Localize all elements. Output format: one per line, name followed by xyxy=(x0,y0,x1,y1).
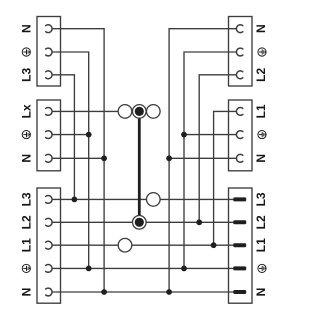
selector circle L1 bus (open) xyxy=(118,238,132,252)
pin BR-L1 xyxy=(233,243,246,247)
junction PE bus / PE riser right xyxy=(181,266,187,272)
svg-text:L1: L1 xyxy=(254,238,268,252)
wire N riser left (TL-N to ML-N to BL-N) xyxy=(52,29,104,292)
junction N bus / N riser right xyxy=(166,289,172,295)
terminal block TL (N PE L3 outlet) xyxy=(37,17,61,87)
svg-text:L1: L1 xyxy=(254,104,268,118)
label PE symbol (ML) xyxy=(22,131,30,139)
wire L3 bus (BL-L3 to BR-L3) xyxy=(52,198,235,200)
terminal block TR (N PE L2 outlet) xyxy=(229,17,253,87)
socket contact ML-PE xyxy=(46,131,52,139)
svg-text:L3: L3 xyxy=(19,192,33,206)
label PE symbol (TL) xyxy=(22,48,30,56)
svg-text:L2: L2 xyxy=(19,215,33,229)
svg-text:N: N xyxy=(19,24,33,33)
socket contact BL-L2 xyxy=(46,218,52,226)
wire PE bus (BL-PE to BR-PE) xyxy=(52,267,235,269)
wire L2 bus (BL-L2 to BR-L2) xyxy=(52,221,235,223)
wire L2 riser right (TR-L2 to L2 bus) xyxy=(199,75,236,223)
terminal block ML (Lx PE N outlet) xyxy=(37,100,61,171)
terminal block BR (L3 L2 L1 PE N feed-in pins) xyxy=(229,188,253,303)
svg-text:L3: L3 xyxy=(19,67,33,81)
svg-text:Lx: Lx xyxy=(19,104,33,118)
pin BR-L2 xyxy=(233,220,246,224)
wire ML-N to N riser xyxy=(52,157,104,159)
svg-text:N: N xyxy=(254,154,268,163)
pin BR-N xyxy=(233,290,246,294)
socket contact TR-N xyxy=(236,25,242,33)
svg-text:L2: L2 xyxy=(254,67,268,81)
junction L2 bus / L2 riser right xyxy=(196,219,202,225)
junction ML-PE / PE riser left xyxy=(86,132,92,138)
wire PE riser left (TL-PE to ML-PE to BL-PE) xyxy=(52,52,89,268)
socket contact BL-N xyxy=(46,288,52,296)
wire L3 riser left (TL-L3 to BL-L3) xyxy=(52,75,74,200)
label PE symbol (BL) xyxy=(22,264,30,272)
socket contact TL-L3 xyxy=(46,71,52,79)
svg-text:N: N xyxy=(19,288,33,297)
selector circle L3 bus (open) xyxy=(147,193,161,207)
wire N riser right (TR-N to MR-N to BR-N) xyxy=(169,29,236,292)
selector circle L2 bus (selected, filled) xyxy=(133,216,147,230)
junction L1 bus / L1 riser right xyxy=(211,242,217,248)
junction L3 bus / L3 riser left xyxy=(72,197,78,203)
junction ML-N / N riser left xyxy=(101,155,107,161)
wire Lx selector jumper (thick, selects L2) xyxy=(138,111,141,217)
svg-text:L2: L2 xyxy=(254,215,268,229)
socket contact ML-Lx xyxy=(46,108,52,116)
svg-text:L1: L1 xyxy=(19,238,33,252)
selector circle Lx position 3 (open) xyxy=(147,105,161,119)
socket contact TR-L2 xyxy=(236,71,242,79)
junction PE bus / PE riser left xyxy=(86,266,92,272)
wire MR-PE to PE riser xyxy=(184,134,236,136)
socket contact MR-N xyxy=(236,154,242,162)
junction MR-PE / PE riser right xyxy=(181,132,187,138)
selector circle Lx position 1 (open) xyxy=(118,105,132,119)
svg-text:L3: L3 xyxy=(254,192,268,206)
socket contact MR-L1 xyxy=(236,108,242,116)
socket contact BL-PE xyxy=(46,265,52,273)
svg-text:N: N xyxy=(19,154,33,163)
terminal block MR (L1 PE N outlet) xyxy=(229,100,253,171)
wire N bus (BL-N to BR-N) xyxy=(52,291,235,293)
wire ML-PE to PE riser xyxy=(52,134,89,136)
label PE symbol (MR) xyxy=(258,131,266,139)
socket contact TR-PE xyxy=(236,48,242,56)
svg-text:N: N xyxy=(254,24,268,33)
socket contact TL-PE xyxy=(46,48,52,56)
selector circle Lx position 2 (selected, filled) xyxy=(133,105,147,119)
socket contact TL-N xyxy=(46,25,52,33)
label PE symbol (BR) xyxy=(258,264,266,272)
wire PE riser right (TR-PE to MR-PE to BR-PE) xyxy=(184,52,236,268)
svg-text:N: N xyxy=(254,288,268,297)
label PE symbol (TR) xyxy=(258,48,266,56)
wire L1 bus (BL-L1 to BR-L1) xyxy=(52,244,235,246)
junction N bus / N riser left xyxy=(101,289,107,295)
socket contact ML-N xyxy=(46,154,52,162)
pin BR-L3 xyxy=(233,197,246,201)
wire L1 riser right (MR-L1 to L1 bus) xyxy=(214,111,237,245)
socket contact BL-L3 xyxy=(46,196,52,204)
wire ML-Lx to selector xyxy=(52,110,118,112)
socket contact MR-PE xyxy=(236,131,242,139)
wire MR-N to N riser xyxy=(169,157,236,159)
socket contact BL-L1 xyxy=(46,241,52,249)
terminal block BL (L3 L2 L1 PE N outlet) xyxy=(37,188,61,303)
pin BR-PE xyxy=(233,266,246,270)
junction MR-N / N riser right xyxy=(166,155,172,161)
